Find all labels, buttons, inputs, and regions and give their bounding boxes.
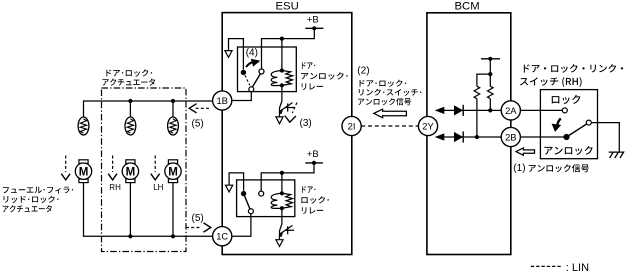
+B supply terminal bar (unlock relay): [305, 27, 323, 29]
unlock contact (closed, filled): [563, 134, 569, 140]
wire: +B to relay contact and coil: [262, 28, 315, 69]
junction on bottom rail (RH branch): [128, 234, 132, 238]
ESU terminal 1C: [213, 227, 232, 246]
lock contact (open): [562, 108, 567, 113]
label: door unlock relay line2: [301, 72, 348, 79]
wire: lock relay common to 1C: [233, 214, 251, 237]
ESU terminal 1B: [213, 91, 232, 110]
svg-text:+B: +B: [307, 149, 319, 160]
BCM terminal 2Y: [418, 116, 437, 135]
BCM control unit box: [427, 13, 511, 255]
signal arrow (5) from actuators at 1C: [186, 227, 201, 229]
wire: left resistor to 2B line: [476, 99, 478, 137]
junction on top rail (LH branch): [171, 99, 175, 103]
wire: lock relay NC contact to ground arrow: [229, 173, 244, 191]
ESU terminal 2I: [342, 116, 361, 135]
junction: lock coil feed: [280, 171, 284, 175]
LIN bus wire 2I to 2Y (dashed): [361, 125, 418, 127]
svg-text:(2): (2): [357, 66, 369, 77]
junction: left resistor on 2B: [475, 135, 479, 139]
lock relay armature (at rest on ground contact): [245, 196, 250, 209]
junction: resistor feed: [488, 72, 492, 76]
svg-text:2Y: 2Y: [422, 120, 434, 131]
ground exit arrow (lock relay NC): [226, 185, 233, 192]
svg-text:1B: 1B: [216, 95, 227, 106]
+B junction dot (lock relay): [312, 161, 316, 165]
chassis ground: [609, 152, 624, 158]
diode D (2A line): [454, 105, 463, 115]
actuator movement arrow (RH door): [108, 156, 117, 180]
supply rail junction dot: [488, 57, 492, 61]
junction on top rail (RH branch): [128, 99, 132, 103]
svg-text:BCM: BCM: [455, 0, 480, 12]
lock relay coil with resistor: [271, 191, 292, 210]
PTC thermistor (fuel filler lid actuator): [78, 117, 89, 135]
pull-up resistor R (2A line): [488, 86, 494, 99]
relay actuation arrow (4): [246, 62, 253, 67]
svg-text:2A: 2A: [505, 105, 517, 116]
lock relay common contact: [248, 209, 253, 214]
unlock relay NO contact (+B): [259, 69, 264, 74]
signal flow block arrow (2): [374, 109, 407, 118]
wire: 2A to lock contact: [520, 109, 562, 111]
label: fuel filler lid lock actuator line2: [4, 196, 59, 203]
signal arrow (5) toward actuators at 1B: [194, 107, 209, 109]
label: door lock link switch title line2: [520, 77, 582, 87]
signal direction arrow on 2A line: [435, 107, 445, 114]
svg-text:(4): (4): [246, 48, 258, 59]
unlock relay armature rest position (dashed): [245, 75, 250, 85]
svg-text:(3): (3): [300, 118, 312, 129]
label: door unlock relay line3: [302, 83, 323, 90]
svg-text:2I: 2I: [348, 120, 356, 131]
switch movement arrow: [557, 119, 560, 125]
svg-text:LH: LH: [153, 183, 163, 192]
wire: NC contact to ground arrow: [229, 39, 244, 70]
wire: right resistor to 2A line: [489, 99, 491, 111]
unlock signal block arrow (1): [516, 148, 535, 155]
label: door lock link switch unlock signal line2: [359, 89, 422, 96]
pull-up resistor R (2B line): [474, 86, 480, 99]
unlock relay armature (energized, on +B): [252, 74, 260, 87]
label: door unlock relay line1: [302, 62, 315, 69]
unlock relay NC contact (to ground): [241, 70, 246, 75]
label: door lock relay line1: [302, 186, 315, 193]
+B supply terminal bar (lock relay): [305, 162, 323, 164]
svg-text:(5): (5): [192, 213, 204, 224]
wire: actuator top rail to 1B: [84, 101, 214, 117]
lock relay NC contact (to ground): [241, 191, 246, 196]
wire: coil feed down: [281, 39, 283, 71]
door lock link switch box: [540, 90, 597, 159]
motor M (LH door actuator): [165, 160, 181, 183]
svg-text:: LIN: : LIN: [566, 262, 589, 273]
wire: lock coil feed down: [281, 173, 283, 193]
dash-dot boundary: door lock actuator assembly: [102, 88, 187, 252]
motor M (RH door actuator): [122, 160, 138, 183]
unlock relay common contact: [249, 87, 254, 92]
junction: right resistor on 2A: [488, 108, 492, 112]
label: fuel filler lid lock actuator line3: [3, 205, 52, 212]
BCM terminal 2A: [501, 101, 520, 120]
unlock relay driver transistor: [276, 85, 294, 123]
label: fuel filler lid lock actuator line1: [3, 187, 73, 194]
svg-text:(5): (5): [192, 119, 204, 130]
label: unlock signal: [529, 164, 589, 172]
svg-text:(1): (1): [513, 163, 525, 174]
BCM terminal 2B: [501, 127, 520, 146]
driver switching arrow (3): [292, 103, 297, 114]
unlock relay coil with resistor: [271, 68, 292, 87]
label: unlock position: [544, 146, 592, 155]
label: lock position: [552, 95, 581, 104]
switch arm (in unlock position): [567, 124, 587, 137]
label: door lock link switch unlock signal line1: [360, 80, 407, 87]
label: door lock actuator line1: [106, 69, 152, 76]
label: door lock relay line2: [301, 196, 329, 203]
lock relay driver transistor: [276, 208, 294, 246]
signal direction arrow on 2B line: [435, 133, 445, 140]
wire: 2B to unlock contact: [520, 136, 564, 138]
junction: coil feed: [280, 37, 284, 41]
PTC thermistor (LH door actuator): [168, 117, 179, 135]
wire: supply to pull-up resistors: [477, 59, 490, 86]
PTC thermistor (RH door actuator): [125, 117, 136, 135]
motor M (fuel filler lid actuator): [75, 160, 91, 183]
door lock relay box: [237, 180, 295, 217]
wire: 2A sense line: [444, 109, 502, 111]
diode D (2B line): [454, 132, 463, 142]
label: door lock link switch unlock signal line3: [358, 98, 411, 105]
switch common contact: [586, 120, 591, 125]
svg-text:RH: RH: [109, 183, 121, 192]
ESU control unit box: [222, 13, 352, 255]
lock relay NO contact (+B): [259, 191, 264, 196]
wire: unlock relay common to 1B: [233, 92, 252, 101]
svg-text:2B: 2B: [505, 131, 516, 142]
wire: common to chassis ground: [591, 123, 619, 152]
+B junction dot: [312, 26, 316, 30]
label: door lock link switch title line1: [524, 64, 623, 73]
wire: 2B sense line: [444, 136, 502, 138]
label: door lock actuator line2: [102, 78, 155, 85]
actuator movement arrow (fuel filler lid): [61, 156, 70, 180]
door unlock relay box: [238, 47, 297, 92]
internal supply rail bar: [481, 58, 500, 60]
actuator movement arrow (LH door): [151, 156, 160, 180]
svg-text:+B: +B: [307, 15, 319, 26]
label: door lock relay line3: [302, 207, 323, 214]
wire: actuator bottom rail to 1C: [84, 183, 214, 236]
svg-text:1C: 1C: [216, 231, 228, 242]
ground exit arrow (unlock relay NC): [225, 51, 232, 58]
wire: +B to lock relay contact and coil: [261, 163, 314, 191]
legend dashed sample line: [531, 265, 562, 267]
junction on bottom rail (LH branch): [171, 234, 175, 238]
svg-text:ESU: ESU: [276, 0, 299, 12]
